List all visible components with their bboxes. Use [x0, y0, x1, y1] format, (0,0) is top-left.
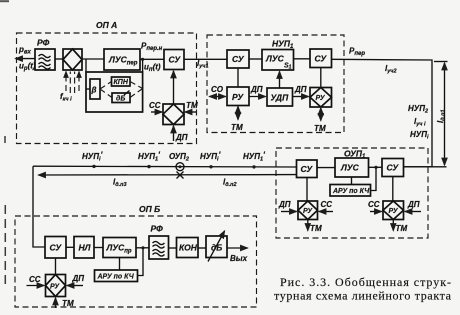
dashed enclosure NUP1 — [207, 35, 344, 133]
amplifier LUS per — [104, 49, 140, 70]
AGC block ARU po KCh (OUP1) — [330, 185, 371, 197]
svg-text:ДП: ДП — [250, 85, 263, 94]
trunk line 2 return — [39, 174, 297, 176]
wire box edge to beta — [86, 88, 90, 90]
svg-text:uп(t): uп(t) — [144, 63, 161, 74]
arrow UDP up to LUS — [279, 72, 281, 89]
service regulator RU (OP B) — [46, 275, 66, 297]
scan margin tick — [4, 136, 6, 143]
feedback tap from hybrid wire — [85, 59, 87, 72]
dashed converge dB to edge — [130, 89, 143, 98]
dashed pilot arrows f_kch — [66, 72, 79, 94]
svg-text:НУП1': НУП1' — [138, 151, 161, 163]
arrow UDP to RU right with DP label — [293, 96, 309, 98]
wire LUS pr to RF with junction — [136, 246, 149, 249]
svg-text:ДП: ДП — [278, 200, 291, 209]
amplifier LUS pr — [103, 238, 136, 258]
repeater dot NUP i — [92, 165, 95, 168]
trunk line 1 with repeater dots — [33, 165, 297, 168]
svg-text:СУ: СУ — [169, 55, 182, 65]
RF wave symbol — [39, 54, 51, 69]
wire LUS to SU right — [294, 58, 311, 60]
svg-text:СУ: СУ — [301, 164, 314, 174]
dashed converge KPN to edge — [130, 82, 143, 89]
SU left (NUP1) — [227, 50, 249, 68]
svg-text:КПН: КПН — [114, 79, 129, 86]
svg-text:Рпер: Рпер — [349, 47, 365, 58]
wire SU down to RU — [55, 258, 57, 275]
distance dimension l_d.p1 — [404, 62, 448, 167]
scan margin dashes — [4, 205, 6, 288]
arrow DP into RU — [405, 211, 421, 213]
svg-text:ТМ: ТМ — [186, 101, 198, 110]
arrow SS into RU — [370, 211, 382, 213]
svg-text:ТМ: ТМ — [62, 299, 74, 308]
svg-text:РУ: РУ — [389, 208, 399, 215]
hybrid coupler (OP A input) — [63, 49, 82, 70]
svg-text:ЛУС: ЛУС — [340, 163, 360, 173]
SU right (OUP1) — [382, 159, 404, 177]
svg-text:АРУ по КЧ: АРУ по КЧ — [332, 188, 370, 195]
svg-text:СС: СС — [321, 200, 333, 209]
wire hybrid to LUS per — [82, 58, 104, 60]
SU right (NUP1) — [310, 49, 332, 68]
SU left (OUP1) — [297, 160, 318, 178]
wire SU left down to RU — [306, 178, 308, 202]
wire SU to LUS — [249, 58, 262, 60]
svg-text:ДП: ДП — [407, 200, 420, 209]
svg-text:НУПi': НУПi' — [82, 151, 103, 163]
arrow TM into hybrid — [185, 111, 196, 113]
arrow TM up into RU — [55, 298, 57, 308]
svg-text:дБ: дБ — [116, 95, 125, 103]
dashed enclosure OP A — [17, 33, 197, 144]
svg-text:турная схема линейного тракта: турная схема линейного тракта — [274, 289, 452, 303]
double arrow SO to RU — [210, 96, 226, 98]
feedback enclosure box (beta network) — [86, 72, 143, 112]
RF wave symbol — [153, 241, 165, 256]
svg-text:ТМ: ТМ — [314, 124, 326, 133]
svg-text:ТМ: ТМ — [231, 123, 243, 132]
dB variable arrow — [124, 91, 130, 96]
wire LUS per to SU with junction — [140, 58, 164, 61]
svg-text:ОП А: ОП А — [96, 20, 117, 30]
svg-text:ДП: ДП — [294, 85, 307, 94]
svg-text:УДП: УДП — [271, 93, 290, 103]
dashed enclosure OUP1 — [276, 148, 428, 238]
KPN block — [112, 77, 131, 86]
svg-text:pвх: pвх — [18, 45, 32, 56]
wire SU to LUS with junction — [369, 166, 383, 169]
band filter RF (OP B) — [149, 236, 169, 259]
regulator RU left (NUP1) — [227, 87, 249, 106]
svg-text:Рис. 3.3. Обобщенная струк-: Рис. 3.3. Обобщенная струк- — [280, 275, 451, 289]
scan corner smudge — [0, 0, 9, 2]
amplifier LUS S1 — [262, 50, 294, 71]
svg-text:СС: СС — [29, 275, 41, 284]
dB variable arrow — [208, 231, 225, 262]
wire LUS pr down to ARU — [119, 258, 121, 271]
service regulator RU right (OUP1) — [383, 201, 404, 220]
svg-text:ТМ: ТМ — [396, 224, 408, 233]
svg-text:ЛУСпер: ЛУСпер — [108, 55, 138, 67]
svg-text:НУПi': НУПi' — [200, 151, 221, 163]
double arrow TM below RU left — [237, 107, 239, 120]
svg-text:ДП: ДП — [72, 274, 85, 283]
service regulator RU left (OUP1) — [298, 201, 318, 220]
arrow SS into RU — [27, 285, 45, 287]
svg-text:РУ: РУ — [316, 95, 326, 102]
SU (OP B) — [45, 237, 66, 259]
svg-text:АРУ по КЧ: АРУ по КЧ — [97, 274, 135, 281]
arrow DP into RU — [67, 285, 83, 287]
svg-text:β: β — [91, 86, 97, 95]
arrow DP into hybrid — [173, 126, 175, 141]
double arrow TM below RU right — [320, 108, 322, 121]
svg-text:дБ: дБ — [211, 243, 222, 253]
wire RF to hybrid — [55, 58, 63, 60]
wire LUS down to ARU — [351, 177, 353, 185]
amplifier LUS (OUP1) — [335, 158, 369, 177]
band filter RF (OP A) — [35, 49, 55, 70]
arrow SS into hybrid — [151, 111, 162, 113]
dashed fan beta to KPN — [100, 82, 112, 90]
arrow TM down (OUP1 left) — [307, 220, 309, 231]
converter KON — [177, 238, 199, 258]
svg-text:СУ: СУ — [232, 54, 245, 64]
svg-text:Вых: Вых — [230, 254, 248, 263]
wire junction down to ARU — [138, 248, 144, 276]
dB block (feedback) — [112, 93, 130, 103]
service regulator RU right (NUP1) — [310, 88, 332, 108]
svg-text:СУ: СУ — [315, 54, 328, 64]
OUP2 node circle — [176, 163, 184, 171]
svg-text:uр(t): uр(t) — [19, 62, 36, 73]
repeater dot NUP 1 (right) — [252, 165, 255, 168]
svg-text:ОУП2: ОУП2 — [169, 152, 189, 163]
svg-text:РУ: РУ — [303, 208, 313, 215]
svg-text:СС: СС — [149, 101, 161, 110]
svg-text:РФ: РФ — [37, 38, 50, 48]
svg-text:lд.п1: lд.п1 — [436, 109, 447, 123]
svg-text:РУ: РУ — [232, 92, 244, 102]
svg-text:lд.п2: lд.п2 — [223, 178, 237, 189]
beta block — [90, 79, 100, 99]
svg-text:lуч2: lуч2 — [385, 64, 397, 75]
line-matching unit SU (OP A) — [164, 50, 184, 70]
svg-text:СУ: СУ — [387, 163, 400, 173]
wire hybrid up to SU — [173, 71, 175, 104]
svg-text:ЛУСпр: ЛУСпр — [106, 243, 132, 255]
feedback drop from LUS-SU junction — [142, 59, 144, 72]
remote power unit UDP — [267, 88, 293, 106]
svg-text:НУП1': НУП1' — [243, 151, 266, 163]
wire NL to LUS pr — [94, 247, 103, 249]
dashed enclosure OP B — [15, 216, 257, 307]
wire SU right down to RU — [320, 68, 322, 88]
trunk corner down to OP B — [33, 166, 45, 247]
svg-text:СС: СС — [368, 200, 380, 209]
svg-text:РФ: РФ — [151, 224, 164, 234]
wire junction down to ARU — [371, 167, 377, 190]
svg-text:РУ: РУ — [50, 284, 60, 291]
arrow DP into RU — [281, 211, 297, 213]
svg-text:ОП Б: ОП Б — [139, 204, 160, 214]
svg-text:lуч i: lуч i — [414, 117, 426, 128]
svg-text:ТМ: ТМ — [310, 224, 322, 233]
wire SU to NL — [66, 246, 74, 248]
svg-text:НЛ: НЛ — [79, 243, 91, 253]
wire NUP1 out to corner — [332, 59, 433, 167]
svg-text:lд.п3: lд.п3 — [113, 178, 127, 189]
slope equalizer NL — [74, 237, 94, 259]
wire SU down to RU — [237, 68, 239, 87]
svg-text:СО: СО — [211, 85, 224, 94]
arrow TM down (OUP1 right) — [392, 220, 394, 231]
service set hybrid (OP A bottom) — [163, 104, 184, 125]
wire KON to dB — [198, 247, 206, 249]
wire SU out to NUP1 — [184, 58, 227, 60]
svg-text:fкч i: fкч i — [60, 92, 72, 103]
svg-text:НУП1: НУП1 — [272, 39, 294, 51]
OUP2 cross mark — [177, 172, 184, 179]
svg-text:ЛУС: ЛУС — [265, 54, 285, 64]
wire LUS to SU left — [317, 167, 335, 169]
AGC block ARU po KCh (OP B) — [95, 270, 138, 282]
repeater dot NUP i (right) — [209, 165, 212, 168]
svg-text:S1: S1 — [284, 63, 292, 71]
repeater dot NUP 1 — [147, 165, 150, 168]
output arrow Vyh — [227, 247, 248, 249]
dashed fan beta to dB — [100, 89, 112, 98]
wire RF to KON — [169, 247, 177, 249]
arrow RU to UDP with DP label — [249, 96, 266, 98]
arrow SS into RU — [319, 211, 333, 213]
svg-text:НУПi: НУПi — [410, 130, 429, 141]
svg-text:КОН: КОН — [179, 243, 198, 253]
svg-text:НУП2: НУП2 — [408, 104, 428, 115]
attenuator dB (OP B) — [206, 236, 227, 258]
svg-text:Рпер.н: Рпер.н — [141, 42, 163, 53]
svg-text:СУ: СУ — [50, 243, 63, 253]
input arrow p_vx — [16, 58, 36, 60]
svg-text:ДП: ДП — [175, 133, 188, 142]
wire SU right down to RU — [392, 177, 394, 202]
